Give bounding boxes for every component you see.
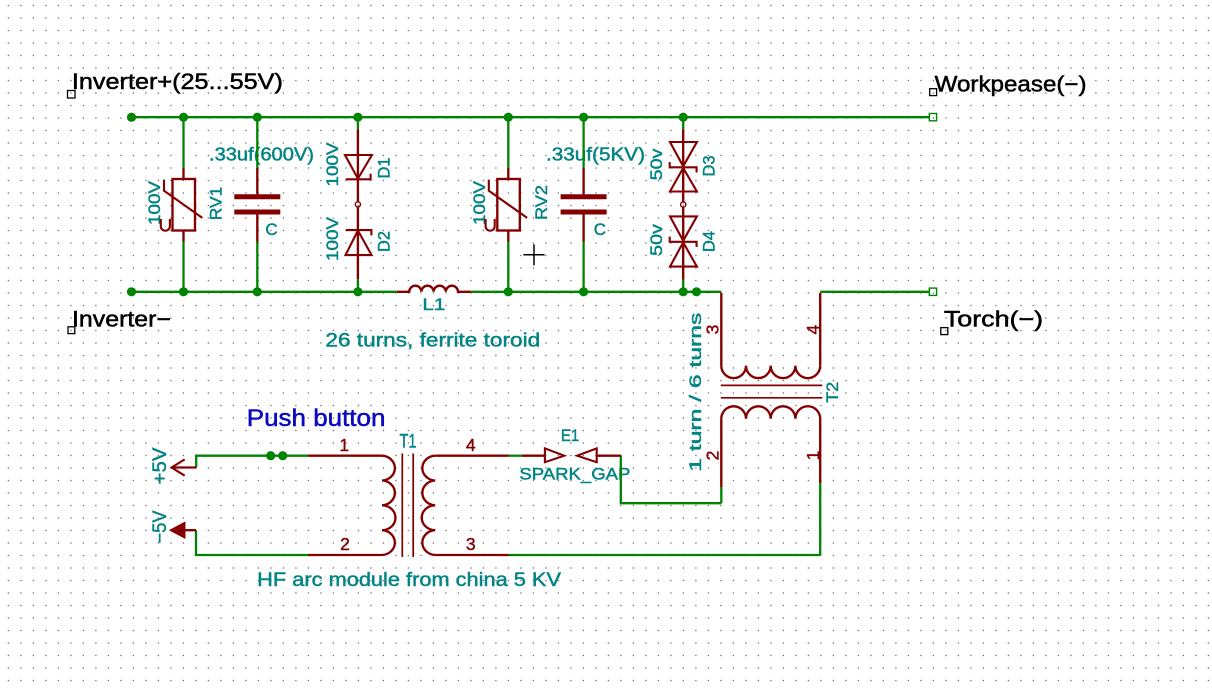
svg-text:L1: L1 [422,295,445,314]
svg-text:D2: D2 [374,231,393,252]
svg-text:100V: 100V [323,216,342,261]
svg-text:RV1: RV1 [206,187,225,221]
svg-text:D3: D3 [700,156,719,177]
svg-text:RV2: RV2 [532,185,551,220]
svg-text:Inverter+(25...55V): Inverter+(25...55V) [72,69,283,94]
svg-text:Workpease(−): Workpease(−) [935,72,1087,97]
svg-text:2: 2 [703,451,723,461]
svg-text:.33uf(5KV): .33uf(5KV) [546,145,645,165]
svg-text:T1: T1 [400,432,417,453]
svg-text:3: 3 [466,534,476,554]
svg-text:HF arc module from china 5 KV: HF arc module from china 5 KV [257,570,561,591]
svg-text:Push button: Push button [247,405,386,432]
svg-text:.33uf(600V): .33uf(600V) [209,145,314,165]
svg-text:50v: 50v [647,224,666,256]
svg-text:100V: 100V [145,180,164,225]
svg-text:C: C [594,220,606,239]
svg-text:26 turns, ferrite toroid: 26 turns, ferrite toroid [325,331,540,352]
svg-text:D4: D4 [700,231,719,252]
svg-text:+5V: +5V [150,447,171,484]
svg-text:Inverter−: Inverter− [72,306,171,331]
svg-text:Torch(−): Torch(−) [944,306,1043,331]
svg-text:E1: E1 [561,426,579,445]
svg-text:1 turn / 6 turns: 1 turn / 6 turns [686,313,705,472]
svg-text:4: 4 [466,435,476,455]
svg-text:100V: 100V [323,142,342,187]
svg-text:T2: T2 [823,382,842,403]
svg-text:3: 3 [703,325,723,335]
svg-text:2: 2 [340,534,350,554]
svg-text:D1: D1 [375,158,394,179]
svg-text:100V: 100V [470,180,489,225]
svg-text:C: C [265,220,277,239]
svg-text:1: 1 [339,435,349,455]
svg-text:−5V: −5V [150,510,171,543]
svg-text:SPARK_GAP: SPARK_GAP [519,465,630,484]
svg-text:50v: 50v [647,148,666,180]
